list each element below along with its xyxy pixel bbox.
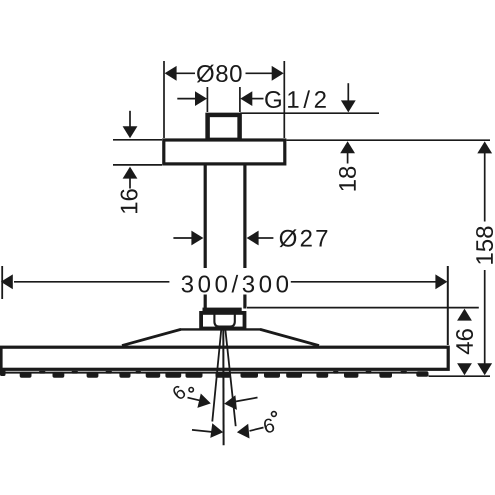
nozzle back-row mark 1 (39, 371, 46, 374)
dim 300/300 dimension line left (14, 281, 169, 283)
dim G1/2 extension line left (206, 87, 208, 112)
dim 300/300 dimension line right (291, 281, 436, 283)
dim G1/2 extension line right (239, 87, 241, 112)
dim 46 label (456, 329, 473, 354)
angle 6deg lower tail right (250, 428, 264, 431)
nozzle 11 (286, 372, 302, 378)
nozzle 5 (146, 372, 161, 378)
nozzle 3 (87, 372, 99, 378)
threaded connector (208, 115, 240, 140)
nozzle back-row mark 6 (366, 371, 372, 374)
nozzle 2 (53, 372, 65, 378)
nozzle 8 (216, 372, 232, 378)
connection nut (201, 313, 244, 329)
dim 158 stem lower (484, 270, 486, 364)
dim 300/300 arrow left (1, 274, 13, 289)
mount top edge (180, 328, 261, 330)
dim Ø27 tail right (258, 237, 273, 239)
angle 6deg upper leader (188, 398, 201, 401)
nozzle 15 (right end) (416, 371, 428, 377)
dim G1/2 down arrow stem (347, 83, 349, 101)
dim Ø27 arrow right (247, 231, 259, 246)
dim 16 label (121, 189, 138, 213)
shower head body (1, 347, 448, 369)
dim G1/2 down arrow (341, 100, 356, 112)
dim 16 down arrow (123, 126, 138, 138)
G1/2 reference line at connector top level (240, 112, 379, 114)
angle 6deg upper label digit (171, 384, 187, 400)
angle 6deg lower label digit (263, 418, 276, 434)
head bottom reference line right (429, 375, 491, 377)
ceiling plate (164, 140, 285, 164)
nozzle back-row mark 5 (333, 371, 339, 374)
dim 300/300 arrow right (435, 274, 447, 289)
46 reference line at flange level (247, 307, 479, 309)
dim 300/300 extension line right (447, 266, 449, 345)
dim G1/2 arrow left (195, 91, 207, 106)
pipe wall right lower (243, 292, 246, 308)
dim 16 down arrow stem (129, 111, 131, 127)
angle 6deg lower arrow right (237, 424, 250, 439)
nozzle 9 (241, 372, 259, 378)
nozzle back-row mark 3 (106, 371, 113, 374)
spray centre line (222, 328, 224, 446)
nozzle back-row mark 4 (136, 371, 142, 374)
dim G1/2 dimension line left (177, 98, 196, 100)
dim Ø80 arrow right (272, 66, 284, 81)
angle 6deg upper label degree sign (189, 388, 193, 392)
aerator inside nut (214, 313, 234, 327)
pipe flange (203, 308, 242, 312)
dim Ø80 label (197, 65, 242, 83)
white mask behind 300/300 label (178, 268, 292, 295)
dim G1/2 dimension line right (252, 98, 264, 100)
dim 18 stem (347, 153, 349, 164)
nozzle 10 (264, 372, 280, 378)
dim Ø80 extension line left (163, 61, 165, 138)
nozzle back-row mark 2 (72, 371, 79, 374)
nozzle 12 (316, 372, 328, 378)
spray line right (225, 328, 236, 426)
dim G1/2 label (265, 90, 326, 108)
shower head bottom left end (0, 369, 6, 377)
nozzle back-row mark 7 (401, 371, 408, 374)
dim Ø80 dimension line left (176, 72, 195, 74)
angle 6deg upper arrow right (224, 395, 237, 410)
angle 6deg upper arrow left (197, 394, 210, 408)
mount left slope (122, 329, 181, 345)
dim 16 up arrow (123, 167, 138, 179)
nozzle 14 (379, 372, 392, 378)
dim Ø27 label (280, 229, 328, 247)
ceiling level line right (287, 139, 491, 141)
dim Ø80 extension line right (283, 61, 285, 138)
nozzle 6 (165, 372, 181, 378)
nozzle 1 (20, 372, 32, 378)
mount right slope (260, 329, 319, 345)
dim 16 up arrow stem (129, 178, 131, 189)
angle 6deg lower label degree sign (272, 412, 277, 417)
dim 300/300 extension line left (1, 266, 3, 299)
nozzle 13 (344, 372, 358, 378)
dim 158 down arrow (477, 363, 492, 375)
dim 158 label (476, 227, 493, 264)
dim 46 up arrow (457, 309, 472, 321)
shower head bottom face line (4, 372, 428, 374)
angle 6deg lower arrow left (210, 423, 223, 438)
pipe wall right upper (243, 166, 246, 270)
angle 6deg lower tail left (192, 430, 212, 432)
dim 16 extension line bottom (113, 164, 162, 166)
dim Ø27 tail left (173, 237, 192, 239)
nozzle 7 (186, 372, 203, 378)
dim 158 stem upper (484, 153, 486, 222)
dim 16 extension line top (113, 139, 162, 141)
dim 158 up arrow (477, 141, 492, 153)
dim 18 label (339, 167, 356, 191)
pipe wall left upper (204, 166, 207, 270)
dim Ø27 arrow left (191, 231, 203, 246)
dim Ø80 dimension line right (246, 72, 273, 74)
angle 6deg upper tail right (236, 398, 258, 402)
dim 300/300 label (182, 275, 288, 293)
dim G1/2 arrow right (240, 91, 252, 106)
dim Ø80 arrow left (165, 66, 177, 81)
spray line left (212, 328, 221, 422)
dim 46 down arrow (457, 363, 472, 375)
pipe wall left lower (204, 292, 207, 308)
dim 18 up arrow (340, 141, 355, 153)
nozzle 4 (119, 372, 130, 378)
